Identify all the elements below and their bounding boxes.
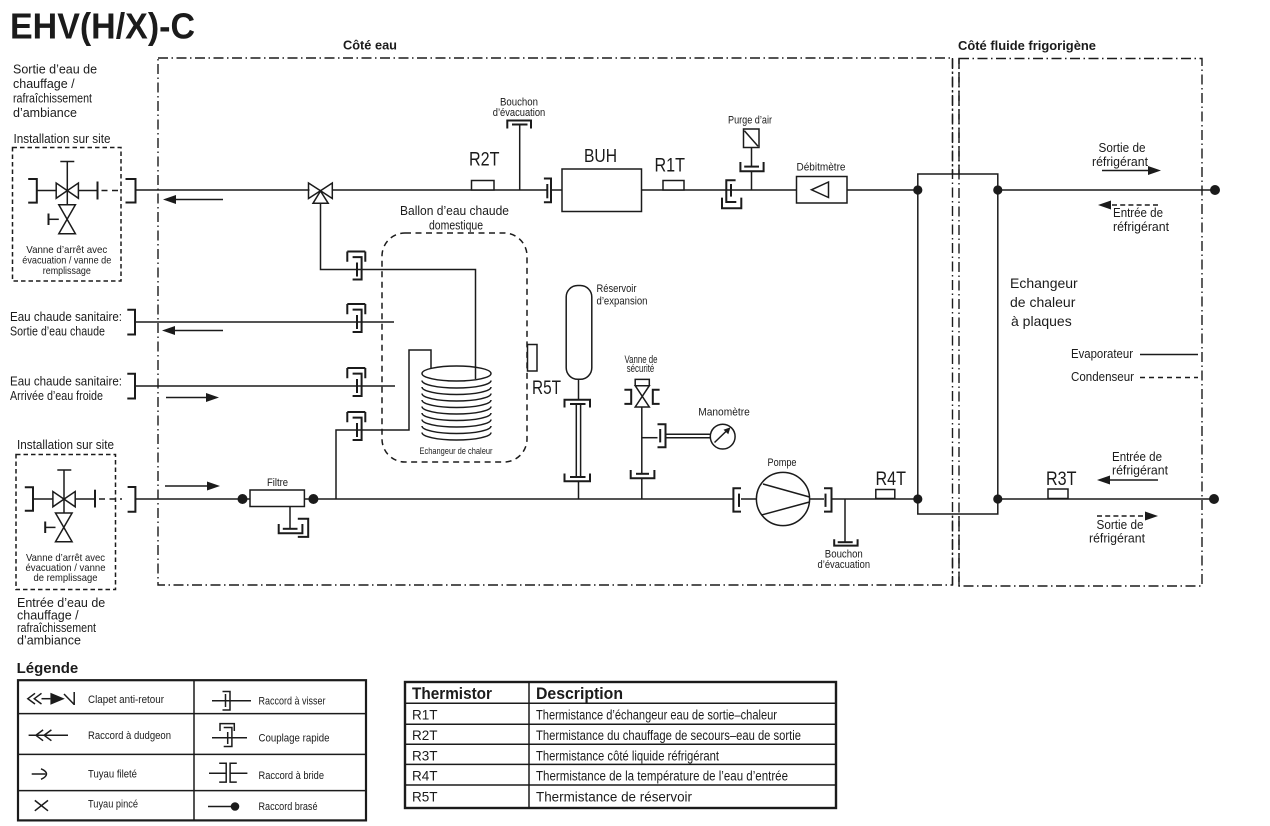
svg-text:Réservoir: Réservoir [597, 283, 637, 295]
svg-text:Eau chaude sanitaire:: Eau chaude sanitaire: [10, 310, 122, 324]
svg-text:d’expansion: d’expansion [597, 296, 648, 308]
svg-text:Thermistance de réservoir: Thermistance de réservoir [536, 790, 692, 805]
svg-text:Evaporateur: Evaporateur [1071, 347, 1133, 361]
svg-text:Echangeur: Echangeur [1010, 275, 1078, 291]
svg-text:Installation sur site: Installation sur site [14, 132, 111, 146]
svg-text:Arrivée d’eau froide: Arrivée d’eau froide [10, 389, 103, 403]
svg-text:R2T: R2T [469, 149, 500, 171]
svg-text:R4T: R4T [876, 468, 907, 490]
svg-text:réfrigérant: réfrigérant [1089, 532, 1146, 546]
svg-text:Entrée de: Entrée de [1112, 450, 1162, 464]
svg-text:Filtre: Filtre [267, 477, 288, 489]
svg-text:Sortie d’eau chaude: Sortie d’eau chaude [10, 325, 105, 339]
svg-text:Thermistance côté liquide réfr: Thermistance côté liquide réfrigérant [536, 748, 719, 763]
svg-text:Condenseur: Condenseur [1071, 370, 1134, 384]
svg-text:Côté fluide frigorigène: Côté fluide frigorigène [958, 38, 1096, 53]
svg-text:Tuyau fileté: Tuyau fileté [88, 769, 137, 781]
svg-text:réfrigérant: réfrigérant [1092, 155, 1149, 169]
svg-text:Sortie de: Sortie de [1097, 518, 1144, 532]
svg-text:domestique: domestique [429, 219, 483, 233]
svg-text:Thermistance d’échangeur eau d: Thermistance d’échangeur eau de sortie–c… [536, 708, 777, 723]
svg-text:R2T: R2T [412, 728, 438, 743]
svg-text:Entrée de: Entrée de [1113, 206, 1163, 220]
svg-text:Sortie d’eau de: Sortie d’eau de [13, 63, 97, 77]
svg-text:réfrigérant: réfrigérant [1113, 220, 1170, 234]
svg-text:d’ambiance: d’ambiance [13, 106, 77, 120]
svg-text:Manomètre: Manomètre [698, 407, 750, 419]
svg-text:Thermistance du chauffage de s: Thermistance du chauffage de secours–eau… [536, 728, 801, 743]
svg-text:R3T: R3T [412, 748, 438, 763]
svg-text:BUH: BUH [584, 146, 617, 166]
svg-text:Raccord à dudgeon: Raccord à dudgeon [88, 730, 171, 742]
svg-text:Raccord brasé: Raccord brasé [259, 801, 318, 813]
svg-text:Clapet anti-retour: Clapet anti-retour [88, 694, 164, 706]
svg-text:Pompe: Pompe [768, 457, 797, 469]
svg-text:d’évacuation: d’évacuation [818, 559, 871, 571]
svg-text:Légende: Légende [17, 660, 79, 677]
svg-text:Raccord à visser: Raccord à visser [259, 696, 326, 708]
svg-text:rafraîchissement: rafraîchissement [13, 92, 92, 106]
svg-text:Tuyau pincé: Tuyau pincé [88, 799, 138, 811]
svg-text:Eau chaude sanitaire:: Eau chaude sanitaire: [10, 375, 122, 389]
svg-text:R5T: R5T [532, 378, 561, 399]
svg-text:d’évacuation: d’évacuation [493, 107, 546, 119]
svg-text:d’ambiance: d’ambiance [17, 634, 81, 648]
svg-text:R1T: R1T [412, 708, 438, 723]
svg-text:Raccord à bride: Raccord à bride [259, 770, 325, 782]
svg-text:Thermistor: Thermistor [412, 684, 492, 703]
svg-text:Côté eau: Côté eau [343, 38, 397, 53]
svg-text:Installation sur site: Installation sur site [17, 438, 114, 452]
svg-text:de remplissage: de remplissage [34, 572, 98, 584]
svg-text:R4T: R4T [412, 769, 438, 784]
svg-text:Sortie de: Sortie de [1099, 141, 1146, 155]
svg-text:R3T: R3T [1046, 468, 1077, 490]
svg-text:Thermistance de la température: Thermistance de la température de l’eau … [536, 769, 788, 784]
svg-text:EHV(H/X)-C: EHV(H/X)-C [10, 6, 195, 47]
svg-text:sécurité: sécurité [627, 363, 655, 375]
svg-text:chauffage /: chauffage / [13, 77, 75, 91]
svg-text:Débitmètre: Débitmètre [797, 162, 846, 174]
svg-text:R1T: R1T [655, 155, 686, 177]
svg-text:réfrigérant: réfrigérant [1112, 464, 1169, 478]
svg-text:Ballon d’eau chaude: Ballon d’eau chaude [400, 204, 509, 218]
svg-text:R5T: R5T [412, 790, 438, 805]
svg-text:à plaques: à plaques [1011, 313, 1072, 329]
svg-text:Couplage rapide: Couplage rapide [259, 733, 330, 745]
svg-text:remplissage: remplissage [43, 265, 91, 277]
svg-text:Purge d’air: Purge d’air [728, 115, 772, 127]
svg-text:de chaleur: de chaleur [1010, 294, 1076, 310]
svg-text:Echangeur de chaleur: Echangeur de chaleur [420, 446, 493, 457]
svg-text:Description: Description [536, 684, 623, 703]
